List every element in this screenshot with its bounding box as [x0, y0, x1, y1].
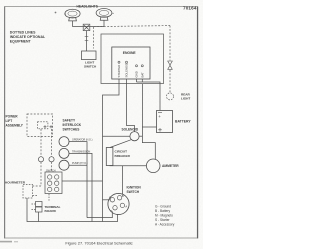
label SAFETY INTERLOCK SWITCHES: [63, 119, 82, 132]
ignition terminal B: [117, 196, 121, 200]
svg-text:SWITCHES: SWITCHES: [63, 127, 80, 131]
scan marks below frame: [0, 241, 12, 243]
ignition terminal S: [113, 206, 117, 210]
wire headlight feeds: [73, 20, 105, 26]
headlight left: [64, 9, 80, 21]
wire interlock S3 stub: [69, 164, 87, 166]
label TERMINAL BOARD: [45, 205, 61, 213]
svg-text:G: G: [109, 195, 111, 199]
headlight junction connector: [83, 24, 90, 30]
ammeter M1: [146, 159, 160, 173]
svg-text:+: +: [158, 114, 161, 119]
light switch LS1: [82, 51, 97, 60]
engine pin 2: [125, 61, 129, 77]
module terminal 1: [48, 175, 52, 179]
ignition terminal A: [120, 203, 124, 207]
svg-text:ENGINE: ENGINE: [123, 51, 137, 55]
svg-text:GND: GND: [135, 71, 139, 77]
module terminal 6: [55, 187, 59, 191]
svg-text:SOLENOID: SOLENOID: [122, 127, 139, 131]
engine compartment outline box: [101, 34, 164, 84]
inline connector P2: [49, 157, 54, 162]
svg-text:HOURMETER: HOURMETER: [5, 180, 26, 184]
interlock module box: [45, 172, 62, 194]
wire solenoid left to node A: [103, 135, 130, 137]
wire interlock S2 to bus: [69, 153, 92, 221]
wire node A to ignition G: [103, 199, 111, 201]
svg-text:INDICATE OPTIONAL: INDICATE OPTIONAL: [10, 35, 46, 39]
svg-text:B: B: [122, 194, 124, 198]
interlock switch S1: [59, 137, 69, 147]
svg-text:M - Magneto: M - Magneto: [155, 214, 173, 218]
svg-text:PUMP (P.T.O.): PUMP (P.T.O.): [72, 162, 88, 165]
wire solenoid right: [139, 135, 142, 137]
wire engine pin1 to node A: [103, 79, 120, 222]
headlight right: [96, 9, 114, 21]
svg-text:BREAKER: BREAKER: [115, 154, 131, 158]
svg-text:EQUIPMENT: EQUIPMENT: [10, 39, 32, 43]
svg-text:SOLENOID: SOLENOID: [125, 63, 129, 77]
svg-text:BOARD: BOARD: [45, 209, 57, 213]
module terminal 2: [55, 175, 59, 179]
svg-text:STARTER: STARTER: [117, 65, 121, 78]
terminal board TB1: [32, 194, 50, 212]
stray speck: [55, 12, 57, 14]
hourmeter dashed box: [23, 185, 37, 199]
label IGNITION SWITCH: [127, 186, 142, 194]
label POWER LIFT ASSEMBLY: [6, 115, 24, 128]
wire module to ignition area: [62, 180, 103, 182]
engine unit U1: [112, 47, 150, 79]
module terminal 3: [48, 181, 52, 185]
power lift assembly dashed enclosure: [27, 114, 53, 137]
engine pin 3: [135, 65, 139, 78]
svg-text:DOTTED LINES: DOTTED LINES: [10, 30, 36, 34]
svg-text:POWER: POWER: [6, 115, 19, 119]
interlock switch S2: [59, 148, 69, 158]
svg-text:BAT: BAT: [140, 72, 144, 78]
svg-text:B - Battery: B - Battery: [155, 209, 170, 213]
circuit breaker CB1: [106, 148, 113, 166]
engine pin 1: [117, 61, 121, 77]
wire ammeter branch to ignition B: [122, 166, 124, 195]
label CIRCUIT BREAKER: [115, 150, 131, 158]
svg-text:HEADLIGHTS: HEADLIGHTS: [77, 5, 99, 9]
power lift motor: [38, 122, 53, 129]
svg-text:INTERLOCK: INTERLOCK: [63, 123, 82, 127]
drawing border frame: [5, 7, 198, 239]
svg-text:LIGHT: LIGHT: [181, 96, 190, 100]
wire junction to light switch: [85, 31, 89, 51]
interlock switch S3: [59, 160, 69, 170]
wire interlock S1 to bus: [69, 142, 87, 218]
svg-text:S: S: [111, 209, 113, 213]
svg-text:SWITCH: SWITCH: [46, 169, 56, 172]
dashed leads power lift down: [41, 129, 52, 157]
wire terminal board to bus: [38, 212, 40, 222]
inline connector P1: [38, 157, 43, 162]
engine pin 4: [140, 65, 144, 78]
svg-text:A: A: [125, 204, 127, 208]
svg-text:AMMETER: AMMETER: [162, 164, 179, 168]
ignition switch S4: [108, 193, 129, 214]
svg-text:LIFT: LIFT: [6, 119, 13, 123]
inline connector on rear light wire: [168, 61, 173, 69]
svg-text:Figure 27. 70164 Electrical Sc: Figure 27. 70164 Electrical Schematic: [65, 240, 132, 245]
wire engine pin2 to solenoid: [127, 79, 135, 132]
wire interlock bus to ignition S: [87, 212, 112, 218]
ignition terminal G: [110, 198, 114, 202]
wire engine pins 3-4 to battery: [137, 79, 161, 111]
label REAR LIGHT: [181, 92, 191, 100]
svg-text:A - Accessory: A - Accessory: [155, 223, 175, 227]
svg-text:SAFETY: SAFETY: [63, 119, 76, 123]
module terminal 4: [55, 181, 59, 185]
rear light lamp: [167, 93, 174, 100]
svg-text:SWITCH: SWITCH: [84, 64, 97, 68]
legend of terminal letters: [155, 205, 175, 227]
svg-text:S - Starter: S - Starter: [155, 218, 170, 222]
dashed leads below connectors: [32, 162, 52, 186]
note: dotted lines indicate optional equipment: [10, 30, 46, 43]
svg-text:TRANSMISSION: TRANSMISSION: [72, 150, 90, 153]
svg-text:70164: 70164: [183, 6, 197, 11]
dashed net to rear light: [94, 26, 170, 93]
svg-text:SWITCH: SWITCH: [127, 190, 140, 194]
svg-text:ASSEMBLY: ASSEMBLY: [6, 123, 24, 127]
module terminal 5: [48, 187, 52, 191]
wire circuit breaker to ammeter: [110, 165, 147, 167]
wire solenoid to circuit breaker: [110, 140, 131, 148]
wire hourmeter to bottom bus: [27, 198, 118, 222]
battery BT1: [157, 111, 173, 133]
label LIGHT SWITCH: [84, 61, 97, 69]
svg-text:BATTERY: BATTERY: [175, 119, 191, 123]
svg-text:OPERATOR (N.O.): OPERATOR (N.O.): [72, 139, 93, 142]
svg-text:G - Ground: G - Ground: [155, 205, 171, 209]
solenoid K1: [130, 132, 139, 141]
wire battery negative to ammeter: [142, 84, 156, 159]
